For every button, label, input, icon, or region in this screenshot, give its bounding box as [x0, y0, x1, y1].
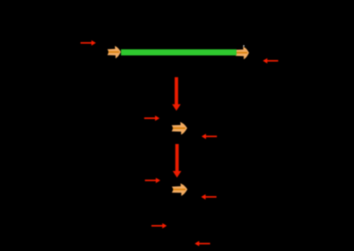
small red arrow (bottom, points right) — [151, 223, 166, 228]
small red arrow (mid cluster 2, points right) — [145, 178, 160, 183]
small red arrow (top right, points left) — [263, 58, 278, 63]
small red arrow (mid cluster 1, points right) — [144, 116, 159, 121]
small red arrow (mid cluster 1, points left) — [202, 134, 217, 139]
green template strand bar — [121, 49, 237, 55]
small red arrow (top left, points right) — [81, 40, 96, 45]
small red arrow (bottom, points left) — [195, 241, 210, 246]
orange primer arrow (middle 2) — [172, 183, 188, 195]
white speck artifact above right primer — [243, 45, 244, 46]
orange primer arrow (left end of strand) — [107, 46, 120, 58]
orange primer arrow (middle 1) — [172, 122, 188, 135]
big red down arrow 1 — [172, 77, 181, 111]
small red arrow (mid cluster 2, points left) — [201, 194, 216, 199]
big red down arrow 2 — [173, 144, 182, 178]
orange primer arrow (right end of strand, drawn under green) — [236, 46, 249, 59]
